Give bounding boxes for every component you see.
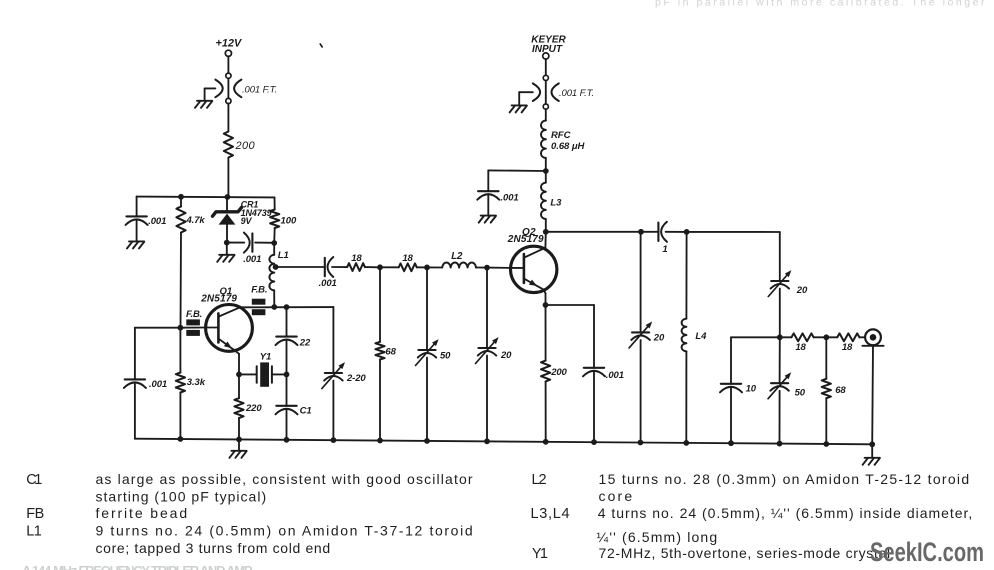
svg-text:200: 200 bbox=[235, 140, 256, 152]
svg-text:50: 50 bbox=[795, 388, 806, 399]
svg-text:18: 18 bbox=[351, 253, 362, 264]
wire feedthrough to R200 bbox=[227, 104, 229, 132]
svg-text:72-MHz, 5th-overtone, series-m: 72-MHz, 5th-overtone, series-mode crysta… bbox=[599, 545, 891, 561]
stray mark bbox=[320, 44, 322, 47]
svg-text:SeekIC.com: SeekIC.com bbox=[870, 537, 984, 567]
wire R18 to node bbox=[365, 266, 380, 268]
inductor L1 (tapped) bbox=[269, 243, 288, 307]
resistor 18 (output, first) bbox=[780, 333, 827, 352]
resistor 200 (supply) bbox=[224, 132, 256, 158]
junction coupling cap 1 left bbox=[638, 229, 644, 235]
faint cropped text bottom left bbox=[22, 563, 254, 570]
junction output 68 branch bbox=[823, 334, 829, 340]
wire Q2 emitter to bypass cap bbox=[546, 305, 595, 368]
svg-text:.001: .001 bbox=[148, 216, 166, 227]
svg-text:+12V: +12V bbox=[215, 38, 242, 50]
inductor L4 bbox=[682, 232, 708, 443]
svg-text:68: 68 bbox=[385, 347, 396, 358]
wire to coupling cap 1 bbox=[641, 231, 658, 233]
svg-text:0.68 μH: 0.68 μH bbox=[551, 141, 586, 152]
junction L4 branch bbox=[684, 229, 690, 235]
svg-text:9V: 9V bbox=[241, 216, 253, 226]
svg-text:3.3k: 3.3k bbox=[187, 377, 206, 388]
resistor 18 (interstage, second) bbox=[380, 253, 417, 271]
svg-text:220: 220 bbox=[245, 403, 262, 414]
svg-text:INPUT: INPUT bbox=[532, 44, 563, 55]
coupling capacitor .001 (interstage) bbox=[319, 257, 337, 289]
svg-text:L1: L1 bbox=[26, 523, 42, 539]
trimmer capacitor 2-20 bbox=[322, 307, 367, 440]
svg-text:20: 20 bbox=[500, 350, 512, 361]
inductor RFC 0.68 uH bbox=[541, 121, 586, 172]
bus junction (3.3k) bbox=[178, 436, 184, 442]
svg-text:18: 18 bbox=[402, 253, 413, 264]
ground (keyer bypass) bbox=[479, 216, 496, 223]
svg-text:L2: L2 bbox=[451, 251, 463, 262]
zener diode CR1 1N4739 9V bbox=[213, 197, 272, 243]
capacitor .001 (CR1 bypass) bbox=[227, 233, 274, 253]
bus junction (200) bbox=[543, 439, 549, 445]
ground (left bypass cap) bbox=[127, 241, 144, 248]
wire coupling cap 1 to node bbox=[666, 231, 687, 233]
svg-text:.001: .001 bbox=[149, 379, 167, 390]
capacitor C1 bbox=[276, 374, 312, 439]
svg-text:starting (100 pF typical): starting (100 pF typical) bbox=[96, 489, 267, 505]
svg-text:18: 18 bbox=[842, 342, 853, 353]
wire coupling cap to R18 bbox=[332, 266, 347, 268]
capacitor 22 bbox=[276, 307, 311, 374]
feedthrough capacitor .001 F.T. (supply) bbox=[215, 73, 277, 104]
resistor 3.3k bbox=[176, 328, 206, 439]
power terminal +12V bbox=[215, 38, 242, 57]
bus junction (.001) bbox=[591, 439, 597, 445]
wire keyer terminal to feedthrough bbox=[545, 59, 547, 75]
svg-text:as large as possible, consiste: as large as possible, consistent with go… bbox=[96, 471, 473, 487]
svg-text:.001 F.T.: .001 F.T. bbox=[242, 85, 277, 96]
junction output line / trimmer bbox=[777, 334, 783, 340]
junction Q2 base / trimmer 20 bbox=[484, 265, 490, 271]
svg-text:L3,L4: L3,L4 bbox=[531, 506, 571, 522]
capacitor .001 (lower left) bbox=[124, 379, 167, 439]
inductor L2 bbox=[427, 251, 487, 267]
svg-text:A 144-MHz FREQUENCY TRIPLER AN: A 144-MHz FREQUENCY TRIPLER AND AMP bbox=[22, 563, 254, 570]
bus junction (20) bbox=[484, 438, 490, 444]
svg-text:L4: L4 bbox=[695, 331, 707, 342]
ground (CR1 anode) bbox=[217, 243, 261, 265]
bus junction (connector) bbox=[869, 441, 875, 447]
bus junction (10) bbox=[728, 440, 734, 446]
junction Q1 collector / L1 bbox=[271, 304, 277, 310]
resistor 220 bbox=[234, 374, 262, 439]
trimmer capacitor 50 (interstage) bbox=[416, 267, 452, 441]
svg-text:L3: L3 bbox=[550, 198, 562, 209]
svg-text:L2: L2 bbox=[532, 472, 548, 488]
crystal Y1 bbox=[239, 352, 287, 387]
wire Q2 collector line bbox=[546, 231, 641, 233]
junction supply bus / 4.7k bbox=[178, 194, 184, 200]
SeekIC.com watermark bbox=[870, 537, 984, 567]
resistor 68 (interstage) bbox=[375, 267, 396, 440]
bus junction (68 output) bbox=[823, 441, 829, 447]
resistor 200 (Q2 emitter) bbox=[541, 305, 568, 442]
svg-text:FB: FB bbox=[26, 506, 45, 522]
resistor 68 (output) bbox=[822, 337, 847, 444]
capacitor .001 (Q2 emitter bypass) bbox=[583, 368, 624, 442]
junction supply bus / CR1 bbox=[225, 194, 231, 200]
svg-text:10: 10 bbox=[746, 383, 757, 394]
svg-text:68: 68 bbox=[835, 385, 846, 396]
svg-text:200: 200 bbox=[550, 367, 567, 378]
resistor 18 (interstage, first) bbox=[347, 253, 365, 271]
capacitor .001 (supply bypass, left) bbox=[126, 216, 167, 241]
bus junction (68) bbox=[377, 438, 383, 444]
capacitor .001 (keyer bypass) bbox=[477, 191, 518, 215]
svg-text:2N5179: 2N5179 bbox=[507, 234, 544, 245]
ground (supply feedthrough) bbox=[195, 101, 212, 108]
svg-text:¼'' (6.5mm) long: ¼'' (6.5mm) long bbox=[597, 529, 718, 545]
svg-text:20: 20 bbox=[653, 333, 665, 344]
ground (emitter branch, below bus) bbox=[229, 439, 246, 457]
junction 50 branch bbox=[424, 265, 430, 271]
svg-text:C1: C1 bbox=[300, 406, 312, 417]
wire base node to lower-left cap bbox=[135, 328, 181, 380]
feedthrough capacitor .001 F.T. (keyer) bbox=[533, 75, 594, 109]
svg-text:4 turns no. 24 (0.5mm), ¼'' (6: 4 turns no. 24 (0.5mm), ¼'' (6.5mm) insi… bbox=[598, 505, 973, 521]
svg-text:1: 1 bbox=[662, 244, 667, 255]
bus junction (50 output) bbox=[777, 441, 783, 447]
svg-text:.001 F.T.: .001 F.T. bbox=[559, 88, 594, 99]
junction Q1 emitter bbox=[236, 372, 242, 378]
wire L1 tap to coupling cap bbox=[276, 266, 325, 268]
junction Q1 base bbox=[178, 325, 184, 331]
wire output line left jog bbox=[731, 337, 780, 384]
transistor Q1 2N5179 bbox=[200, 286, 252, 374]
svg-text:core: core bbox=[599, 488, 633, 504]
trimmer capacitor 20 (interstage) bbox=[476, 268, 513, 442]
ferrite bead (Q1 collector) bbox=[251, 285, 267, 316]
resistor 100 bbox=[270, 197, 297, 243]
svg-text:22: 22 bbox=[299, 337, 311, 348]
svg-text:Y1: Y1 bbox=[260, 352, 271, 363]
wire R200 to supply bus bbox=[227, 158, 229, 198]
ground bus (bottom) bbox=[135, 439, 872, 445]
svg-text:4.7k: 4.7k bbox=[186, 215, 206, 226]
inductor L3 bbox=[541, 171, 562, 232]
bus junction (20 tank) bbox=[638, 440, 644, 446]
svg-text:.001: .001 bbox=[606, 370, 624, 381]
svg-text:core; tapped 3 turns from cold: core; tapped 3 turns from cold end bbox=[96, 540, 331, 556]
notes text block bbox=[26, 471, 973, 562]
junction Q2 collector bbox=[543, 229, 549, 235]
trimmer capacitor 20 (output, upper) bbox=[768, 232, 808, 337]
wire keyer feedthrough ground stub bbox=[519, 92, 533, 105]
svg-text:2-20: 2-20 bbox=[346, 373, 366, 384]
wire collector line to output corner bbox=[687, 231, 780, 233]
wire RFC node to keyer bypass cap bbox=[488, 170, 546, 191]
svg-text:F.B.: F.B. bbox=[186, 309, 202, 320]
svg-text:RFC: RFC bbox=[551, 130, 571, 141]
junction 22pF branch bbox=[284, 304, 290, 310]
junction CR1 anode bbox=[224, 240, 230, 246]
resistor 4.7k bbox=[176, 197, 205, 328]
wire base node to Q1 bbox=[180, 327, 205, 329]
svg-text:2N5179: 2N5179 bbox=[200, 294, 237, 305]
svg-text:100: 100 bbox=[281, 216, 297, 227]
junction 68 branch bbox=[377, 264, 383, 270]
wire R18 to node 50 bbox=[417, 266, 427, 268]
svg-text:9 turns no. 24 (0.5mm) on Amid: 9 turns no. 24 (0.5mm) on Amidon T-37-12… bbox=[96, 522, 474, 538]
bus junction (L4) bbox=[683, 440, 689, 446]
svg-text:C1: C1 bbox=[26, 472, 43, 488]
wire Q2 base bbox=[487, 267, 511, 269]
bus junction (2-20) bbox=[331, 437, 337, 443]
wire +12V terminal to feedthrough bbox=[227, 56, 229, 73]
faint cropped text top right bbox=[655, 0, 985, 9]
svg-text:Y1: Y1 bbox=[532, 546, 549, 562]
trimmer capacitor 20 (collector tank) bbox=[629, 232, 665, 443]
keyer input terminal bbox=[531, 34, 566, 59]
supply bus wire (top) bbox=[137, 196, 275, 199]
trimmer capacitor 50 (output) bbox=[768, 337, 806, 443]
coupling capacitor 1 bbox=[658, 222, 667, 255]
svg-text:.001: .001 bbox=[319, 278, 337, 289]
svg-text:18: 18 bbox=[795, 342, 806, 353]
ground (keyer feedthrough) bbox=[510, 105, 527, 112]
svg-text:.001: .001 bbox=[243, 254, 261, 265]
bus junction (C1) bbox=[284, 437, 290, 443]
junction L1 tap bbox=[273, 264, 279, 270]
junction RFC / bypass bbox=[543, 168, 549, 174]
junction Q2 emitter bbox=[543, 302, 549, 308]
wire feedthrough ground stub bbox=[205, 88, 216, 100]
svg-text:ferrite bead: ferrite bead bbox=[96, 505, 188, 521]
svg-text:.001: .001 bbox=[501, 192, 519, 203]
resistor 18 (output, second) bbox=[826, 333, 865, 352]
svg-text:F.B.: F.B. bbox=[251, 285, 267, 296]
svg-text:15 turns no. 28 (0.3mm) on Ami: 15 turns no. 28 (0.3mm) on Amidon T-25-1… bbox=[599, 471, 970, 487]
svg-text:50: 50 bbox=[440, 351, 451, 362]
ground (output, below bus) bbox=[863, 444, 880, 465]
wire feedthrough to RFC bbox=[545, 109, 547, 120]
ferrite bead (Q1 base) bbox=[186, 309, 202, 336]
junction L1 top / R100 bbox=[271, 240, 277, 246]
svg-text:L1: L1 bbox=[278, 250, 289, 261]
wire bus corner to left bypass cap bbox=[136, 197, 138, 217]
output connector bbox=[862, 329, 883, 444]
wire Q1 collector line bbox=[240, 306, 333, 308]
junction crystal / C1 branch bbox=[284, 372, 290, 378]
svg-text:20: 20 bbox=[796, 285, 808, 296]
bus junction (220/ground) bbox=[236, 437, 242, 443]
capacitor 10 bbox=[720, 383, 757, 443]
bus junction (50) bbox=[424, 438, 430, 444]
transistor Q2 2N5179 bbox=[507, 227, 557, 305]
svg-text:pF in parallel with more calib: pF in parallel with more calibrated. The… bbox=[655, 0, 985, 9]
